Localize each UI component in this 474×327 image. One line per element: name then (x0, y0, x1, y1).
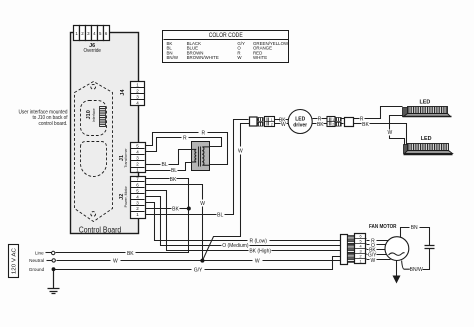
svg-text:W: W (255, 258, 260, 264)
svg-text:Power, Motor: Power, Motor (124, 185, 128, 207)
svg-text:W: W (200, 201, 205, 207)
svg-text:6: 6 (359, 235, 361, 239)
svg-text:BN/W: BN/W (167, 55, 179, 60)
svg-text:1: 1 (271, 118, 273, 122)
svg-text:W: W (238, 148, 243, 154)
svg-text:BN: BN (411, 225, 418, 231)
svg-text:3: 3 (359, 250, 361, 254)
svg-text:BN/W: BN/W (410, 267, 423, 273)
svg-text:4: 4 (359, 245, 361, 249)
svg-text:BL: BL (217, 213, 223, 219)
svg-text:BROWN/WHITE: BROWN/WHITE (187, 55, 219, 60)
svg-text:LED: LED (420, 99, 431, 105)
svg-text:J4: J4 (120, 89, 126, 96)
svg-text:LED: LED (421, 136, 432, 142)
svg-text:BK: BK (362, 122, 369, 128)
svg-text:FAN MOTOR: FAN MOTOR (369, 224, 397, 230)
svg-text:W: W (371, 258, 376, 264)
svg-text:WHITE: WHITE (253, 55, 267, 60)
svg-text:Transformer: Transformer (124, 147, 128, 167)
svg-text:2: 2 (271, 123, 273, 127)
svg-text:driver: driver (293, 123, 307, 129)
svg-text:BK (High): BK (High) (249, 248, 271, 254)
svg-text:O (Medium): O (Medium) (222, 243, 249, 249)
svg-text:BK: BK (317, 122, 324, 128)
svg-text:Neutral: Neutral (29, 258, 44, 264)
svg-text:1: 1 (359, 260, 361, 264)
svg-text:G/Y: G/Y (194, 267, 203, 273)
svg-text:W: W (388, 130, 393, 136)
svg-text:R: R (183, 135, 187, 141)
svg-text:1: 1 (332, 118, 334, 122)
svg-text:control board.: control board. (39, 121, 68, 127)
svg-text:5: 5 (359, 240, 361, 244)
svg-text:R: R (201, 130, 205, 136)
svg-text:2: 2 (359, 255, 361, 259)
svg-text:2: 2 (332, 123, 334, 127)
svg-text:Control Board: Control Board (79, 226, 122, 235)
svg-text:BK: BK (172, 207, 179, 213)
svg-text:120 V AC: 120 V AC (11, 248, 17, 274)
svg-text:W: W (113, 258, 118, 264)
svg-text:COLOR CODE: COLOR CODE (209, 33, 243, 39)
svg-text:Ground: Ground (29, 267, 45, 273)
svg-text:BK: BK (170, 177, 177, 183)
svg-text:W: W (281, 122, 286, 128)
svg-text:Interface: Interface (92, 108, 96, 122)
svg-text:BK: BK (127, 251, 134, 257)
svg-text:Override: Override (83, 48, 101, 54)
svg-text:BL: BL (162, 162, 168, 168)
svg-text:Line: Line (35, 251, 44, 257)
svg-text:BL: BL (171, 168, 177, 174)
svg-text:R (Low): R (Low) (249, 239, 267, 245)
